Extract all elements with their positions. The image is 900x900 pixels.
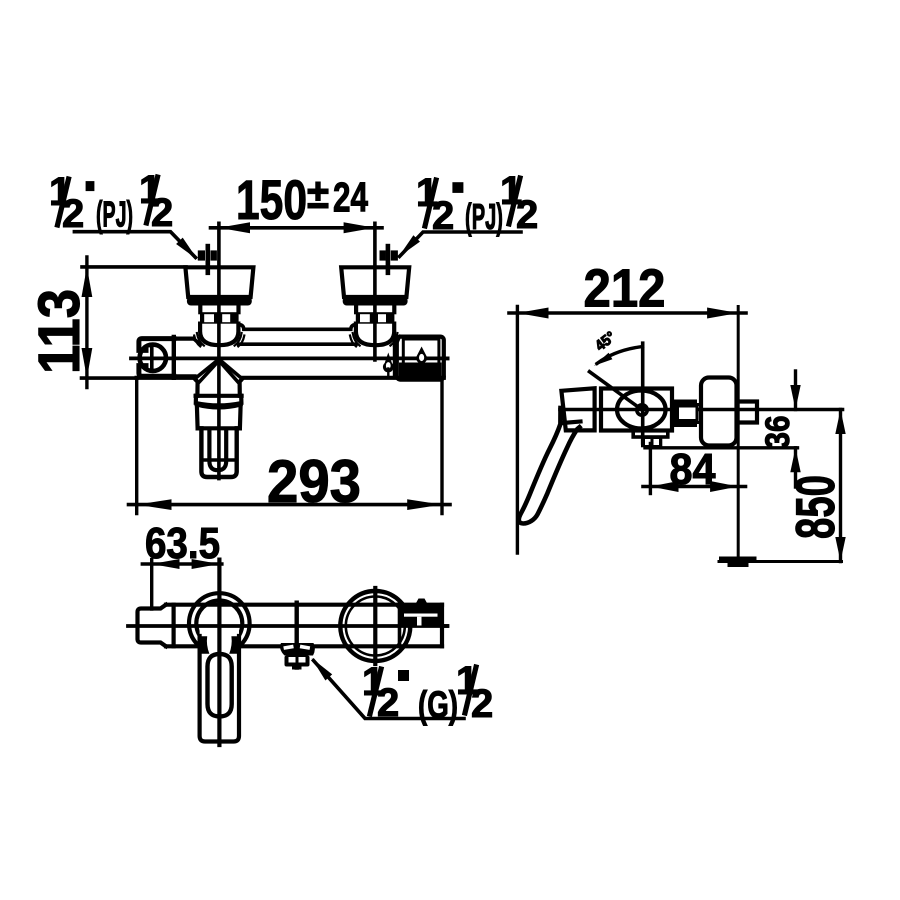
pipe stub behind wall — [741, 402, 758, 423]
axis — [217, 360, 221, 479]
dim 150±24 — [211, 168, 383, 233]
svg-text:113: 113 — [27, 289, 92, 374]
svg-text:293: 293 — [267, 448, 361, 515]
grip loop — [209, 430, 226, 470]
FRONT VIEW — [27, 168, 538, 515]
right end cap — [395, 337, 448, 380]
dim 212 — [509, 259, 746, 554]
lever handle hanging (front) — [195, 360, 242, 479]
svg-text:36: 36 — [759, 416, 797, 449]
black base band — [343, 297, 408, 306]
svg-text:2: 2 — [471, 682, 493, 726]
shower outlet (bottom view) — [280, 603, 315, 670]
lever bar — [199, 629, 239, 742]
svg-text:850: 850 — [784, 475, 846, 539]
step piece — [697, 405, 701, 423]
barrel top arc — [197, 405, 241, 408]
eccentric nipple — [380, 246, 398, 273]
svg-text:212: 212 — [584, 259, 666, 319]
handle block — [561, 388, 594, 430]
svg-text:(PJ): (PJ) — [96, 194, 133, 235]
body axis line — [128, 624, 447, 628]
valve body — [601, 389, 672, 431]
wall connector nut — [673, 400, 698, 428]
45 deg construction vertical — [641, 343, 645, 443]
body top line between elbows — [239, 342, 356, 346]
dim 84 — [643, 444, 746, 495]
wall line — [737, 307, 740, 562]
elbow highlight arcs — [194, 333, 244, 346]
valve hub — [637, 405, 647, 415]
black base band — [187, 297, 252, 306]
svg-text:84: 84 — [670, 445, 716, 494]
grip tip — [201, 428, 236, 477]
bell sides — [195, 380, 197, 396]
right inlet assembly (eccentric coupling) — [341, 223, 409, 360]
body outline left block — [174, 337, 195, 378]
left C-end bracket — [139, 339, 174, 377]
grip cross line — [203, 458, 235, 461]
wall flange — [701, 378, 737, 446]
left cap — [138, 605, 174, 647]
dim 850 — [784, 410, 846, 562]
centerline — [217, 223, 221, 360]
neck — [356, 306, 394, 313]
dim 293 — [129, 381, 451, 515]
right escutcheon circle — [340, 591, 410, 661]
lever slot — [208, 654, 232, 717]
elbow highlight arcs — [350, 333, 400, 346]
escutcheon trapezoid — [185, 267, 253, 297]
centerline — [373, 223, 377, 360]
label 1/2"(G) — [312, 658, 494, 727]
body bottom line — [137, 376, 444, 380]
temp button teardrop in window — [416, 347, 427, 364]
label 1/2"(PJ) left — [49, 168, 198, 260]
centerline tick past cap — [444, 356, 448, 360]
BOTTOM VIEW — [128, 519, 493, 745]
barrel — [197, 406, 241, 429]
locknut — [200, 312, 239, 324]
SIDE VIEW — [509, 259, 846, 568]
chamfer left of left elbow — [194, 339, 201, 345]
collar — [196, 396, 242, 406]
limiter pin on body — [383, 353, 394, 377]
center axis line — [560, 408, 843, 412]
shower outlet under valve — [633, 431, 668, 448]
left inlet assembly (eccentric coupling) — [185, 223, 253, 360]
floor symbol — [719, 557, 757, 568]
right black band — [400, 599, 448, 647]
chamfer right elbow to end cap — [394, 338, 397, 344]
elbow ball — [356, 324, 394, 346]
bell bottom — [196, 394, 242, 398]
svg-text:150: 150 — [236, 168, 307, 231]
top line right of right elbow — [395, 335, 397, 339]
lever handle curve — [519, 408, 580, 524]
dim 63.5 — [142, 519, 221, 609]
raised bridge line between elbows — [239, 325, 356, 330]
label 1/2"(PJ) right — [399, 169, 539, 257]
angle arc with arrow — [594, 347, 643, 366]
escutcheon trapezoid — [341, 267, 409, 297]
elbow ball — [200, 324, 238, 346]
joint ring — [599, 389, 603, 431]
dim 36 — [759, 371, 801, 487]
svg-text:±: ± — [307, 170, 329, 217]
neck — [200, 306, 238, 313]
lever axis — [217, 560, 221, 745]
svg-text:24: 24 — [333, 174, 368, 221]
body axis line — [131, 356, 448, 360]
eccentric nipple — [198, 246, 217, 273]
locknut — [356, 312, 395, 324]
lever escutcheon circle — [189, 593, 250, 654]
floor line — [719, 560, 842, 563]
right axis tick — [373, 588, 377, 664]
valve ellipse — [617, 391, 666, 429]
45 deg diagonal — [590, 372, 643, 410]
lever cover circle — [196, 601, 242, 647]
tent cone lines — [195, 360, 242, 382]
svg-text:63.5: 63.5 — [145, 519, 220, 568]
dim 113 — [27, 257, 186, 388]
body outline — [166, 605, 442, 647]
extension line y=447.8 — [645, 446, 798, 449]
